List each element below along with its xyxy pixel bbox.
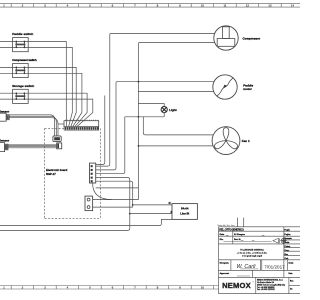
- svg-text:12: 12: [246, 4, 250, 8]
- svg-text:Rev.: Rev.: [285, 254, 289, 256]
- svg-text:motor: motor: [243, 87, 252, 91]
- svg-text:REL. OTTO GENERICO: REL. OTTO GENERICO: [219, 228, 244, 232]
- svg-text:Pagina: Pagina: [285, 234, 292, 236]
- svg-text:11: 11: [223, 4, 227, 8]
- switch S3 contacts: [15, 93, 25, 99]
- svg-text:Sensor: Sensor: [0, 110, 10, 114]
- svg-text:Cod.: Cod.: [285, 258, 289, 260]
- svg-text:Light: Light: [169, 108, 176, 112]
- third angle projection symbol: [273, 238, 287, 244]
- svg-text:10: 10: [201, 4, 205, 8]
- svg-text:Approvat.: Approvat.: [220, 272, 230, 275]
- lamp L1: [161, 107, 167, 113]
- wire S3 left feeds: [0, 93, 13, 99]
- cable sensor B1 to connector A (3 strands): [9, 115, 54, 136]
- compressor M1 circle: [214, 26, 238, 50]
- switch S3 storage switch: [13, 89, 29, 103]
- svg-text:Fax +39 030 2157613: Fax +39 030 2157613: [257, 289, 275, 291]
- switch S2 compressor switch: [13, 64, 29, 78]
- wire aux vertical into connector C top: [96, 96, 105, 165]
- wire S1 left feeds: [0, 42, 13, 48]
- svg-text:e 0.5 gradi sugli angoli: e 0.5 gradi sugli angoli: [242, 256, 263, 258]
- connector B: [57, 143, 62, 149]
- wire S1 through box: [13, 42, 29, 48]
- curved wire from connector C bottom: [93, 183, 112, 200]
- switch S2 contacts: [15, 67, 25, 73]
- svg-text:W. Carli: W. Carli: [237, 264, 257, 270]
- title block texts: [219, 228, 294, 291]
- switch S1 contacts: [15, 42, 25, 48]
- title block: [219, 227, 301, 294]
- junction dots: [129, 81, 139, 215]
- svg-text:PA-04: PA-04: [181, 206, 189, 210]
- sensor B1 (cropped at left): [0, 113, 9, 121]
- line-in feed bottom run: [0, 219, 172, 225]
- wire S3 bottom to bus: [28, 99, 93, 126]
- power inlet box PA-04 Line IN: [172, 204, 197, 220]
- svg-text:NGP-17: NGP-17: [46, 172, 56, 176]
- wire lamp drop: [163, 113, 165, 117]
- svg-text:Electronic board: Electronic board: [46, 168, 68, 172]
- svg-text:Sensor: Sensor: [0, 138, 10, 142]
- svg-text:N. Disegno: N. Disegno: [234, 234, 246, 236]
- svg-text:Rev.: Rev.: [290, 281, 294, 283]
- svg-text:TOLLERANZE GENERALI: TOLLERANZE GENERALI: [240, 249, 264, 252]
- svg-text:Storage switch: Storage switch: [12, 84, 34, 88]
- top ruler band: [0, 4, 300, 8]
- wire S3 through box: [13, 93, 29, 99]
- wire S2 top to bus: [28, 67, 76, 126]
- svg-text:Proiez.: Proiez.: [285, 246, 291, 248]
- wire pin2 to paddle motor top: [96, 82, 214, 170]
- wire pin5 to N vertical: [96, 181, 133, 207]
- dashed electronic board boundary: [45, 128, 101, 218]
- svg-text:13: 13: [268, 4, 272, 8]
- wire S2 bottom to bus: [28, 73, 82, 126]
- wire paddle motor bottom: [138, 91, 214, 93]
- svg-text:Compressor switch: Compressor switch: [12, 58, 37, 62]
- svg-text:14: 14: [291, 4, 295, 8]
- svg-text:Paddle switch: Paddle switch: [12, 32, 33, 36]
- wire lamp feed: [138, 104, 164, 107]
- switch S1 paddle switch: [13, 38, 29, 52]
- wire D pin1: [93, 199, 139, 201]
- connector D (2-pin): [85, 196, 93, 211]
- svg-text:+/- 0.1 su 1 dec. +/- 0.05 su: +/- 0.1 su 1 dec. +/- 0.05 su 2 dec.: [237, 253, 268, 255]
- svg-text:Dis.: Dis.: [220, 239, 224, 241]
- bottom ruler band: [0, 286, 219, 290]
- connector J1 terminal strip: [64, 121, 99, 131]
- svg-text:7/01/2017: 7/01/2017: [264, 265, 285, 270]
- wire fan top branch: [143, 117, 213, 135]
- svg-text:Formato: Formato: [285, 237, 293, 240]
- wire S2 through box: [13, 67, 29, 73]
- connector J1 pin squares: [65, 127, 99, 130]
- wire pin3 to lamp net: [96, 117, 125, 174]
- svg-text:Foglio: Foglio: [285, 229, 291, 231]
- connector A: [53, 136, 61, 142]
- paddle motor M2 circle: [213, 75, 237, 99]
- svg-text:Line IN: Line IN: [180, 211, 189, 215]
- wire S1 bottom to bus: [28, 47, 72, 126]
- svg-text:Fan 1: Fan 1: [242, 139, 250, 143]
- cable sensor B2 to connector B (band): [8, 145, 57, 148]
- wire pin1 to compressor top: [96, 34, 215, 167]
- wire S2 left feeds: [0, 67, 13, 73]
- svg-text:Nome file: Sch. Gen.: Nome file: Sch. Gen.: [218, 225, 236, 227]
- wire aux lower horizontal: [96, 187, 139, 189]
- svg-text:A4: A4: [290, 288, 292, 291]
- wire S1 top to bus: [28, 42, 66, 127]
- sensor B2 (cropped at left): [0, 143, 8, 152]
- wire stub into J1 left: [58, 123, 64, 125]
- wire N to line-in: [133, 204, 172, 206]
- wire lamp bottom net: [125, 116, 164, 118]
- wire pin4 to F line long run: [0, 178, 130, 231]
- address block: [257, 279, 285, 292]
- fan M3 circle: [212, 127, 240, 155]
- wire S3 top to bus: [28, 93, 87, 126]
- connector J1 top pin ticks: [66, 120, 98, 121]
- connector C (5-pin): [90, 163, 96, 183]
- svg-text:10: 10: [201, 286, 205, 290]
- svg-text:Prog.: Prog.: [285, 250, 290, 252]
- svg-text:Compressor: Compressor: [243, 37, 262, 41]
- svg-text:NEMOX: NEMOX: [222, 281, 251, 290]
- svg-text:Disegnat.: Disegnat.: [220, 262, 230, 265]
- wire master vertical: [138, 43, 214, 200]
- svg-text:N: N: [169, 201, 171, 205]
- stub verticals above title block: [237, 218, 243, 227]
- wire F to line-in: [130, 213, 172, 215]
- wire fan bottom: [138, 145, 213, 147]
- wire D pin2: [93, 206, 133, 208]
